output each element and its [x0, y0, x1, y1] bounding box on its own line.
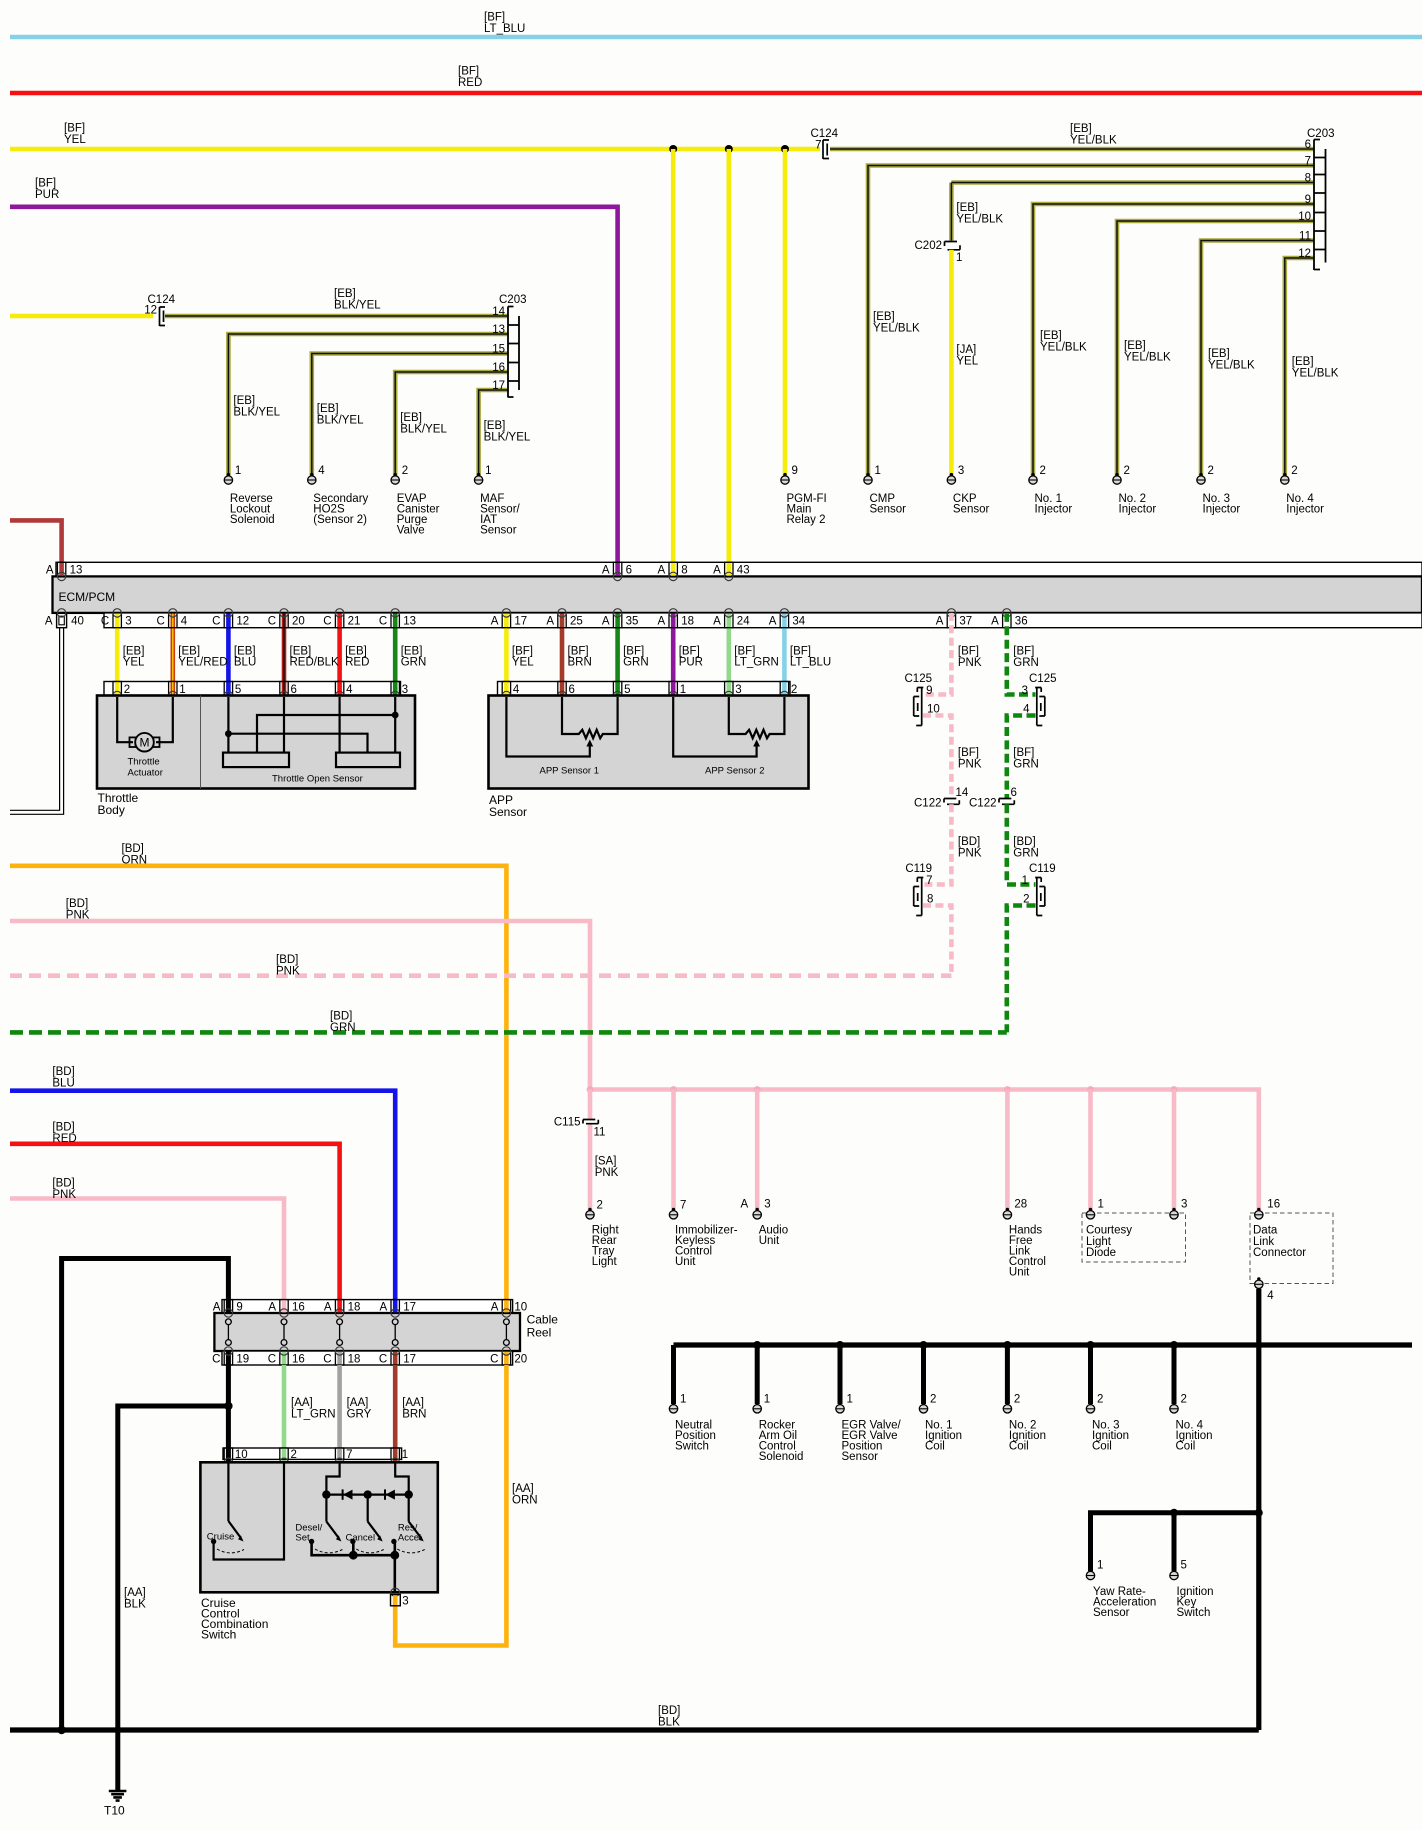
- junctions on pink bus: [587, 1086, 1178, 1093]
- connector C115 pin 11: [554, 1090, 606, 1211]
- svg-text:[AA]: [AA]: [402, 1397, 424, 1409]
- svg-text:12: 12: [144, 305, 157, 317]
- label [EB] YEL/BLK injector 3 wire: [1208, 348, 1255, 372]
- throttle body connector row: [104, 682, 401, 696]
- svg-text:4: 4: [318, 465, 325, 477]
- svg-text:[BD]: [BD]: [658, 1705, 680, 1717]
- No. 4 Ignition Coil: [1170, 1393, 1213, 1452]
- wires through APP row: [506, 682, 784, 696]
- svg-text:PNK: PNK: [958, 847, 982, 859]
- connector C119 pins 1/2 (right): [1022, 863, 1056, 916]
- svg-text:2: 2: [791, 684, 797, 696]
- svg-text:3: 3: [958, 465, 964, 477]
- svg-text:2: 2: [1040, 465, 1046, 477]
- svg-text:[BF]: [BF]: [1013, 645, 1034, 657]
- EGR Valve: [836, 1393, 902, 1463]
- Rocker Arm Oil Control Solenoid: [753, 1393, 803, 1463]
- APP Sensor 2 potentiometer: [673, 697, 784, 777]
- svg-text:3: 3: [1181, 1199, 1187, 1211]
- wire black drop to No. 3 Ignition Coil: [1087, 1341, 1095, 1404]
- cruise switch internal: cruise contact: [207, 1463, 284, 1560]
- cruise switch connector row: [223, 1448, 402, 1459]
- ECM pin A17: [491, 609, 527, 628]
- svg-text:18: 18: [348, 1353, 361, 1365]
- svg-text:37: 37: [959, 616, 972, 628]
- svg-text:1: 1: [1098, 1199, 1104, 1211]
- wire black DLC pin 4 to bottom bus: [1256, 1289, 1261, 1730]
- svg-text:[AA]: [AA]: [512, 1483, 534, 1495]
- svg-text:1: 1: [680, 684, 686, 696]
- svg-text:1: 1: [1022, 875, 1028, 887]
- label [EB] YEL/RED wire: [178, 645, 227, 668]
- svg-text:C202: C202: [915, 240, 943, 252]
- label [BF] LT_BLU wire: [790, 645, 831, 668]
- ground T10: [104, 1791, 126, 1818]
- svg-text:9: 9: [1305, 194, 1311, 206]
- label Cruise Control Combination Switch: [201, 1596, 268, 1642]
- TB pin 4: [335, 682, 353, 700]
- svg-text:RED: RED: [52, 1133, 76, 1145]
- svg-text:Injector: Injector: [1119, 504, 1157, 516]
- No. 2 Injector: [1113, 465, 1157, 516]
- svg-text:C: C: [490, 1353, 498, 1365]
- wire [BF] PUR horizontal, to ECM A6: [10, 177, 618, 562]
- wire [BD] GRN dashed horizontal bus: [10, 1010, 1007, 1034]
- wire pink drop to immobilizer: [671, 1090, 676, 1211]
- svg-text:C: C: [212, 1353, 220, 1365]
- svg-text:[AA]: [AA]: [347, 1397, 369, 1409]
- svg-text:PNK: PNK: [276, 965, 300, 977]
- diode set: [342, 1489, 344, 1499]
- svg-text:C125: C125: [1029, 673, 1057, 685]
- wire black drop to EGR Valve: [836, 1341, 844, 1404]
- diode resume: [384, 1489, 386, 1499]
- svg-text:C122: C122: [969, 798, 997, 810]
- APP pin 4: [502, 682, 520, 700]
- svg-text:GRN: GRN: [1013, 758, 1039, 770]
- MAF Sensor/IAT Sensor: [474, 465, 520, 537]
- svg-text:1: 1: [956, 252, 962, 264]
- wire black sub-bus to yaw sensor and ignition key switch: [1091, 1509, 1263, 1571]
- svg-text:A: A: [658, 616, 666, 628]
- svg-text:GRN: GRN: [1013, 847, 1039, 859]
- svg-text:5: 5: [1181, 1560, 1187, 1572]
- svg-text:[EB]: [EB]: [1208, 348, 1230, 360]
- ECM pin C12: [212, 609, 249, 628]
- APP pin 6: [558, 682, 575, 700]
- CMP Sensor: [864, 465, 906, 516]
- cable reel pin A9: [213, 1300, 243, 1318]
- cable reel pin C19: [212, 1347, 249, 1366]
- svg-text:YEL/BLK: YEL/BLK: [1292, 367, 1339, 379]
- connector C203 (pins 14-17): [499, 294, 527, 398]
- svg-text:BLU: BLU: [234, 656, 256, 668]
- No. 3 Ignition Coil: [1086, 1393, 1129, 1452]
- connector C124 pin 12: [144, 294, 175, 326]
- svg-text:Coil: Coil: [1176, 1440, 1196, 1452]
- wire [BD] PNK dashed C119 down to pink bus: [923, 906, 951, 976]
- APP connector row: [498, 682, 791, 696]
- CKP Sensor: [947, 465, 989, 516]
- svg-text:3: 3: [764, 1199, 770, 1211]
- Neutral Position Switch: [669, 1393, 716, 1452]
- wire [BF] YEL feed to C124 pin 12: [10, 314, 153, 319]
- ECM pin A34: [769, 609, 806, 628]
- svg-text:YEL: YEL: [956, 355, 978, 367]
- svg-text:2: 2: [1014, 1393, 1020, 1405]
- svg-text:20: 20: [514, 1353, 527, 1365]
- Right Rear Tray Light: [586, 1200, 620, 1269]
- svg-text:3: 3: [402, 684, 408, 696]
- svg-text:9: 9: [792, 465, 798, 477]
- svg-text:36: 36: [1015, 616, 1028, 628]
- junction yellow bus to ECM A8: [669, 145, 677, 153]
- svg-text:Cruise: Cruise: [207, 1532, 234, 1543]
- Courtesy Light Diode: [1082, 1199, 1187, 1263]
- ECM pin C4: [156, 609, 187, 628]
- svg-text:3: 3: [402, 1595, 408, 1607]
- TB pin 1: [169, 682, 186, 700]
- svg-text:17: 17: [514, 616, 527, 628]
- connector C122 pin 14 (left): [914, 787, 969, 810]
- svg-text:[EB]: [EB]: [1040, 330, 1062, 342]
- wire [BF] YEL horizontal bus: [10, 122, 820, 149]
- label [BF] BRN wire: [568, 645, 592, 668]
- wire [BD] GRN dashed C119 down to green bus: [1007, 906, 1036, 1033]
- cruise pin 1: [391, 1448, 408, 1467]
- wire [BF] LT_GRN A24 to APP sensor: [726, 613, 731, 696]
- svg-text:19: 19: [236, 1353, 249, 1365]
- svg-text:BRN: BRN: [402, 1408, 426, 1420]
- svg-text:A: A: [213, 1302, 221, 1314]
- svg-text:5: 5: [235, 684, 241, 696]
- label [EB] GRN wire: [401, 645, 427, 668]
- cruise pin 2: [280, 1448, 297, 1467]
- ECM pin A36: [991, 609, 1027, 628]
- wire pink drop to courtesy diode 3: [1172, 1090, 1177, 1211]
- svg-text:[BD]: [BD]: [66, 898, 88, 910]
- ECM top pin wires through row: [62, 562, 729, 576]
- svg-text:ORN: ORN: [122, 854, 148, 866]
- connector C119 pins 7/8 (left): [905, 863, 933, 916]
- ECM pin C20: [268, 609, 305, 628]
- wire [BF] YEL vertical to ECM A8: [671, 149, 676, 576]
- cable reel pin C18: [323, 1347, 360, 1366]
- junction black C19/ground branch: [224, 1402, 232, 1410]
- connector C125 pins 3/4 (right): [1022, 673, 1057, 726]
- svg-text:C: C: [379, 616, 387, 628]
- svg-text:Light: Light: [592, 1256, 618, 1268]
- svg-text:3: 3: [735, 684, 741, 696]
- svg-text:Switch: Switch: [201, 1628, 236, 1642]
- ECM pin C13: [379, 609, 416, 628]
- wire [BF] PNK dashed C125 to C122: [923, 716, 982, 799]
- svg-text:[EB]: [EB]: [334, 288, 356, 300]
- svg-text:C125: C125: [905, 673, 933, 685]
- svg-text:YEL: YEL: [512, 656, 534, 668]
- svg-text:C: C: [101, 616, 109, 628]
- svg-text:C119: C119: [1029, 863, 1056, 875]
- No. 2 Ignition Coil: [1003, 1393, 1046, 1452]
- svg-text:GRN: GRN: [623, 656, 649, 668]
- ECM pin A18: [658, 609, 694, 628]
- svg-text:[JA]: [JA]: [956, 344, 976, 356]
- svg-text:[BF]: [BF]: [35, 177, 56, 189]
- svg-text:C: C: [268, 1353, 276, 1365]
- PGM-FI Main Relay 2: [781, 465, 827, 526]
- svg-text:8: 8: [1305, 172, 1311, 184]
- wire [AA] black cable reel A9 loop: [62, 1259, 229, 1731]
- label [EB] BLU wire: [234, 645, 256, 668]
- svg-text:10: 10: [514, 1302, 527, 1314]
- wire [AA] ORN C20 to cruise pin 3: [395, 1365, 537, 1646]
- svg-text:Accel: Accel: [398, 1533, 421, 1544]
- svg-text:C: C: [156, 616, 164, 628]
- wire [BF] LT_BLU horizontal: [10, 11, 1422, 37]
- svg-text:17: 17: [403, 1302, 416, 1314]
- svg-text:35: 35: [626, 616, 639, 628]
- ECM pin C3: [101, 609, 132, 628]
- No. 3 Injector: [1197, 465, 1241, 516]
- wire [AA] BRN C17 to cruise pin 1: [395, 1365, 426, 1448]
- svg-text:6: 6: [291, 684, 297, 696]
- TB pin 6: [280, 682, 297, 700]
- No. 1 Ignition Coil: [919, 1393, 962, 1452]
- wire [EB] BLU C12 to throttle body: [226, 613, 231, 696]
- svg-text:A: A: [936, 616, 944, 628]
- svg-text:[BD]: [BD]: [330, 1010, 352, 1022]
- svg-text:3: 3: [1022, 685, 1028, 697]
- wire [EB] BLK/YEL harness to C203 pins 14-17: [165, 316, 508, 475]
- Secondary HO2S (Sensor 2): [308, 465, 369, 526]
- svg-text:RED: RED: [458, 77, 482, 89]
- Immobilizer-Keyless Control Unit: [669, 1200, 737, 1269]
- svg-text:Coil: Coil: [1009, 1440, 1029, 1452]
- svg-text:[EB]: [EB]: [484, 420, 506, 432]
- svg-text:10: 10: [235, 1449, 248, 1461]
- svg-text:[BF]: [BF]: [958, 645, 979, 657]
- svg-text:APP Sensor 2: APP Sensor 2: [705, 766, 765, 777]
- svg-text:15: 15: [492, 343, 505, 355]
- wire [BF] YEL vertical to PGM-FI main relay 2: [783, 149, 788, 475]
- wire [BD] PNK horizontal to C115 branch: [10, 898, 590, 1090]
- cable reel pin A17: [380, 1300, 416, 1318]
- svg-text:2: 2: [402, 465, 408, 477]
- svg-text:APP Sensor 1: APP Sensor 1: [540, 766, 600, 777]
- Data Link Connector: [1250, 1199, 1333, 1303]
- svg-text:2: 2: [930, 1393, 936, 1405]
- svg-text:BLK: BLK: [658, 1717, 680, 1729]
- ECM pin A13: [46, 562, 82, 580]
- ECM pin A37: [936, 609, 972, 628]
- svg-text:C115: C115: [554, 1117, 581, 1129]
- cable reel pin A10: [491, 1300, 527, 1318]
- svg-text:GRN: GRN: [330, 1022, 356, 1034]
- svg-text:1: 1: [179, 684, 185, 696]
- wires through TB row: [117, 682, 395, 696]
- cable reel internal coils: [226, 1319, 510, 1346]
- wire [BD] GRN dashed C122 to C119: [1007, 804, 1039, 884]
- svg-text:C: C: [379, 1353, 387, 1365]
- Yaw Rate-Acceleration Sensor: [1086, 1560, 1156, 1620]
- svg-text:1: 1: [875, 465, 881, 477]
- svg-text:A: A: [380, 1302, 388, 1314]
- svg-text:Switch: Switch: [1177, 1607, 1211, 1619]
- svg-text:[BD]: [BD]: [52, 1121, 74, 1133]
- svg-text:Data: Data: [1253, 1225, 1278, 1237]
- cruise switch internal: res/accel: [391, 1495, 425, 1553]
- svg-text:Connector: Connector: [1253, 1247, 1306, 1259]
- wire [EB] YEL/RED C4 to throttle body: [171, 613, 176, 696]
- svg-text:YEL/BLK: YEL/BLK: [873, 322, 920, 334]
- svg-text:PUR: PUR: [679, 656, 703, 668]
- svg-text:Injector: Injector: [1203, 504, 1241, 516]
- svg-text:Solenoid: Solenoid: [230, 514, 275, 526]
- wire [BF] GRN dashed C125 to C122: [1007, 716, 1039, 799]
- svg-text:LT_GRN: LT_GRN: [291, 1408, 336, 1420]
- svg-text:ORN: ORN: [512, 1494, 538, 1506]
- svg-text:A: A: [268, 1302, 276, 1314]
- svg-text:RED: RED: [345, 656, 369, 668]
- svg-text:[BF]: [BF]: [64, 122, 85, 134]
- wire [BD] PNK dashed horizontal bus: [10, 954, 951, 978]
- wire [BF] LT_BLU A34 to APP sensor: [782, 613, 787, 696]
- svg-text:6: 6: [569, 684, 575, 696]
- Throttle Body box: [97, 696, 415, 789]
- svg-text:43: 43: [737, 564, 750, 576]
- svg-text:7: 7: [680, 1200, 686, 1212]
- svg-text:1: 1: [764, 1393, 770, 1405]
- svg-text:[BD]: [BD]: [122, 843, 144, 855]
- cruise pin 3: [391, 1588, 409, 1607]
- svg-text:9: 9: [236, 1302, 242, 1314]
- svg-text:[EB]: [EB]: [956, 202, 978, 214]
- APP Sensor box: [489, 696, 809, 789]
- svg-text:Valve: Valve: [397, 525, 425, 537]
- svg-text:A: A: [713, 616, 721, 628]
- svg-text:BLK/YEL: BLK/YEL: [334, 299, 381, 311]
- wire [EB] RED C21 to throttle body: [337, 613, 342, 696]
- svg-text:GRN: GRN: [1013, 657, 1039, 669]
- ECM pin A40: [45, 609, 84, 628]
- svg-text:GRY: GRY: [347, 1408, 372, 1420]
- svg-text:A: A: [658, 564, 666, 576]
- svg-text:C122: C122: [914, 798, 942, 810]
- svg-text:A: A: [45, 616, 53, 628]
- Cruise Control Combination Switch box: [200, 1462, 437, 1592]
- wire [EB] GRN C13 to throttle body: [393, 613, 398, 696]
- svg-text:(Sensor 2): (Sensor 2): [313, 514, 367, 526]
- wire [BD] PNK bus to components: [590, 1090, 1259, 1211]
- svg-text:[AA]: [AA]: [124, 1587, 146, 1599]
- svg-text:A: A: [713, 564, 721, 576]
- svg-text:28: 28: [1014, 1199, 1027, 1211]
- wire [AA] black branch to ground T10: [118, 1406, 229, 1790]
- svg-text:16: 16: [492, 362, 505, 374]
- svg-text:[EB]: [EB]: [1124, 340, 1146, 352]
- svg-text:2: 2: [1181, 1393, 1187, 1405]
- cruise switch internal: desel/set: [295, 1495, 342, 1553]
- label [EB] BLK/YEL top: [334, 288, 381, 312]
- svg-text:21: 21: [348, 616, 361, 628]
- cable reel pin C17: [379, 1347, 416, 1366]
- svg-text:ECM/PCM: ECM/PCM: [59, 590, 116, 604]
- svg-text:2: 2: [597, 1200, 603, 1212]
- svg-text:GRN: GRN: [401, 656, 427, 668]
- label APP Sensor: [489, 793, 527, 819]
- connector C124 pin 7: [811, 128, 839, 159]
- svg-text:[AA]: [AA]: [291, 1397, 313, 1409]
- wire [BD] PNK dashed C122 to C119: [923, 804, 982, 884]
- svg-text:BLK/YEL: BLK/YEL: [484, 431, 531, 443]
- wire [BF] RED horizontal: [10, 65, 1422, 93]
- ECM/PCM unit: [53, 562, 1422, 627]
- connector C122 pin 6 (right): [969, 787, 1017, 810]
- svg-text:A: A: [991, 616, 999, 628]
- label [BF] YEL wire: [512, 645, 534, 668]
- svg-text:YEL/BLK: YEL/BLK: [1040, 341, 1087, 353]
- svg-text:BRN: BRN: [568, 656, 592, 668]
- wire [BD] RED horizontal to cable reel A18: [10, 1121, 340, 1299]
- TB pin 5: [224, 682, 241, 700]
- label [SA] PNK: [595, 1155, 619, 1179]
- svg-text:Sensor: Sensor: [480, 525, 517, 537]
- connector C203 (pins 6-12): [1307, 128, 1335, 270]
- cable reel pin C16: [268, 1347, 305, 1366]
- wire black drop to No. 2 Ignition Coil: [1003, 1341, 1011, 1404]
- svg-text:5: 5: [624, 684, 630, 696]
- wire [BD] BLK ground bus: [674, 1342, 1413, 1347]
- ECM pin A6: [602, 562, 632, 580]
- svg-text:17: 17: [492, 380, 505, 392]
- Audio Unit: [741, 1199, 789, 1248]
- svg-text:Reel: Reel: [527, 1325, 552, 1339]
- svg-text:2: 2: [1124, 465, 1130, 477]
- svg-text:PNK: PNK: [52, 1189, 76, 1201]
- svg-text:[BD]: [BD]: [958, 836, 980, 848]
- svg-text:6: 6: [626, 564, 632, 576]
- label [BF] PUR wire: [679, 645, 703, 668]
- svg-text:[EB]: [EB]: [1292, 356, 1314, 368]
- svg-text:11: 11: [594, 1127, 606, 1139]
- svg-text:T10: T10: [104, 1804, 125, 1818]
- label [EB] BLK/YEL MAF wire: [484, 420, 531, 444]
- wire [BF] BRN A25 to APP sensor: [560, 613, 565, 696]
- svg-text:PNK: PNK: [595, 1167, 619, 1179]
- label [EB] YEL/BLK injector 4 wire: [1292, 356, 1339, 380]
- wire [JA] YEL from C202 to CKP sensor: [951, 250, 978, 476]
- svg-text:PNK: PNK: [958, 657, 982, 669]
- svg-text:18: 18: [348, 1302, 361, 1314]
- svg-text:Courtesy: Courtesy: [1086, 1225, 1132, 1237]
- ECM pin C21: [323, 609, 360, 628]
- label [EB] YEL/BLK injector 1 wire: [1040, 330, 1087, 354]
- label [EB] RED wire: [345, 645, 369, 668]
- svg-text:16: 16: [1267, 1199, 1280, 1211]
- svg-text:13: 13: [403, 616, 416, 628]
- throttle open sensor: [223, 697, 400, 785]
- wire pink drop to hands free link: [1005, 1090, 1010, 1211]
- svg-text:Throttle: Throttle: [128, 757, 160, 768]
- svg-text:24: 24: [737, 616, 750, 628]
- ECM pin A25: [546, 609, 582, 628]
- APP pin 5: [613, 682, 630, 700]
- wire black drop to No. 1 Ignition Coil: [920, 1341, 928, 1404]
- wire [EB] YEL C3 to throttle body: [115, 613, 120, 696]
- label [EB] YEL wire: [123, 645, 145, 668]
- svg-text:C: C: [323, 616, 331, 628]
- svg-text:1: 1: [847, 1393, 853, 1405]
